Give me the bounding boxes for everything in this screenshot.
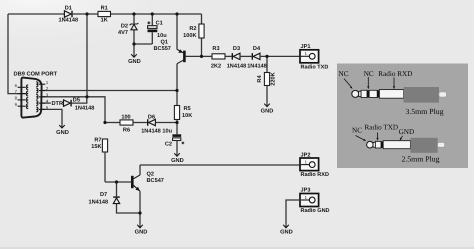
wire: DB9 pin4 stub — [41, 102, 51, 104]
wire: Q2 collector to JP2 — [140, 164, 300, 166]
svg-text:1K: 1K — [101, 18, 108, 24]
DB9 COM PORT connector — [14, 71, 58, 117]
svg-text:BC557: BC557 — [154, 46, 171, 52]
svg-text:220K: 220K — [271, 72, 277, 85]
svg-text:JP2: JP2 — [301, 153, 311, 159]
diode D4 — [247, 46, 267, 69]
ground: D2 — [128, 54, 141, 65]
svg-text:R3: R3 — [212, 46, 219, 52]
zener D2 — [118, 14, 138, 44]
svg-text:NC: NC — [339, 70, 349, 78]
svg-text:Radio TXD: Radio TXD — [301, 64, 329, 70]
svg-text:Radio RXD: Radio RXD — [301, 172, 329, 178]
svg-text:3.5mm Plug: 3.5mm Plug — [405, 107, 443, 116]
node: Q2 emitter / D7 — [138, 211, 141, 214]
wire: top-left rail to D1 — [8, 13, 64, 15]
pin 4 — [39, 102, 46, 104]
svg-text:D6: D6 — [148, 114, 155, 120]
resistor R5 — [174, 91, 192, 123]
svg-text:10u: 10u — [162, 129, 172, 135]
plug tip ring — [352, 90, 359, 97]
node: D2 top — [132, 12, 135, 15]
node: Q1 emitter riser — [175, 12, 178, 15]
resistor R1 — [98, 5, 111, 23]
svg-text:1N4148: 1N4148 — [227, 64, 247, 70]
wire: DB9 pin3 line to R6/R7 node — [41, 97, 105, 123]
svg-text:2K2: 2K2 — [211, 64, 221, 70]
svg-text:4V7: 4V7 — [118, 30, 128, 36]
node: riser / pin3 line — [85, 95, 88, 98]
connector JP2 — [300, 153, 329, 178]
wire: R2 bottom to base junction — [201, 38, 203, 56]
svg-text:Radio TXD: Radio TXD — [365, 124, 399, 132]
wire: corner down to R2 top — [201, 14, 203, 24]
ground: DB9 pin5 — [56, 125, 69, 136]
svg-text:DB9 COM PORT: DB9 COM PORT — [14, 71, 58, 77]
svg-text:C1: C1 — [156, 21, 163, 27]
diode D1 — [58, 5, 78, 23]
node: D4 / R4 / JP1 — [265, 55, 268, 58]
svg-text:Q1: Q1 — [161, 40, 168, 46]
pin 8 — [18, 99, 26, 101]
ground: R4 — [261, 103, 274, 114]
capacitor C1 — [147, 14, 167, 44]
diode D7 — [89, 182, 141, 213]
2.5mm plug drawing — [352, 124, 445, 164]
svg-text:JP3: JP3 — [301, 188, 311, 194]
wire: DB9 pin5 to GND — [41, 109, 62, 124]
svg-text:2.5mm Plug: 2.5mm Plug — [401, 155, 439, 164]
svg-text:1N4148: 1N4148 — [89, 199, 109, 205]
node: D1/R1 junction — [85, 12, 88, 15]
svg-text:R4: R4 — [257, 75, 263, 83]
transistor Q1 BC557 — [154, 14, 202, 91]
svg-text:GND: GND — [399, 128, 415, 136]
diode D6 — [141, 114, 177, 134]
pin 6 — [18, 86, 26, 88]
svg-text:1N4148: 1N4148 — [141, 128, 161, 134]
svg-text:D2: D2 — [121, 23, 128, 29]
wire: R3 to D3 — [225, 55, 232, 57]
svg-text:DTR: DTR — [52, 101, 64, 107]
svg-text:R1: R1 — [101, 5, 108, 11]
node: C1 top — [151, 12, 154, 15]
svg-text:R7: R7 — [94, 137, 101, 143]
svg-text:GND: GND — [261, 108, 274, 114]
svg-text:BC547: BC547 — [147, 178, 164, 184]
wire: D5 anode stub — [62, 102, 65, 104]
wire: base of Q2 — [105, 181, 131, 183]
wire: D1 to R1 — [73, 13, 98, 15]
ground: C2 — [171, 153, 184, 164]
svg-text:D3: D3 — [233, 46, 240, 52]
wire: D1 junction vertical down — [86, 14, 88, 97]
resistor R3 — [211, 46, 225, 69]
svg-text:GND: GND — [56, 130, 69, 136]
diode D5 — [64, 97, 95, 111]
wire: D2 junction to GND — [133, 44, 135, 54]
wire: R1 to R2 corner — [111, 13, 202, 15]
resistor R6 — [105, 114, 147, 133]
svg-text:GND: GND — [135, 229, 148, 235]
svg-text:D7: D7 — [100, 192, 107, 198]
svg-text:10u: 10u — [157, 33, 167, 39]
pin 3 — [39, 96, 46, 98]
transistor Q2 BC547 — [131, 165, 164, 224]
svg-text:GND: GND — [128, 59, 141, 65]
ground: Q2 emitter — [135, 224, 148, 235]
wire: D2 junction to C1 bottom — [134, 43, 152, 45]
svg-text:1N4148: 1N4148 — [58, 18, 78, 24]
pin 9 — [18, 105, 26, 107]
pin 5 — [39, 108, 46, 110]
svg-text:R2: R2 — [189, 26, 196, 32]
svg-text:10K: 10K — [182, 113, 192, 119]
node: D7 top — [115, 180, 118, 183]
svg-text:JP1: JP1 — [301, 44, 311, 50]
svg-text:C2: C2 — [165, 142, 172, 148]
3.5mm plug drawing — [339, 70, 447, 116]
svg-text:Q2: Q2 — [147, 171, 154, 177]
svg-text:NC: NC — [364, 70, 374, 78]
svg-text:D4: D4 — [253, 46, 261, 52]
svg-text:1N4148: 1N4148 — [247, 64, 267, 70]
node: Q1 collector / pin2 / R5 — [175, 89, 178, 92]
wire: left rail down to DB9 pin 7 — [8, 14, 26, 94]
svg-text:GND: GND — [280, 229, 293, 235]
svg-text:D5: D5 — [73, 97, 80, 103]
gray info panel — [337, 64, 468, 169]
svg-text:15K: 15K — [91, 144, 101, 150]
svg-text:100K: 100K — [183, 33, 196, 39]
wire: D4 to JP1 — [260, 55, 300, 57]
pin 7 — [18, 93, 26, 95]
node: R6 / R7 — [103, 121, 106, 124]
wire: DB9 pin2 line to Q1 collector node — [41, 90, 177, 92]
capacitor C2 — [162, 123, 184, 153]
connector JP1 — [300, 44, 328, 71]
pin 2 — [39, 90, 46, 92]
svg-text:GND: GND — [171, 158, 184, 164]
pin 1 — [39, 83, 46, 85]
resistor R4 — [257, 56, 277, 103]
node: R5 / D6 / C2 — [175, 121, 178, 124]
wire: D3 to D4 — [240, 55, 252, 57]
wire: JP3 to GND — [286, 200, 300, 224]
svg-text:NC: NC — [352, 126, 362, 134]
connector JP3 — [300, 188, 330, 215]
svg-text:R5: R5 — [184, 106, 191, 112]
resistor R2 — [183, 24, 204, 39]
wire: base junction to R3 — [202, 55, 213, 57]
svg-text:1N4148: 1N4148 — [75, 106, 95, 112]
node: D2/C1/GND — [132, 42, 135, 45]
svg-text:Radio GND: Radio GND — [301, 208, 330, 214]
svg-text:R6: R6 — [123, 128, 130, 134]
svg-text:D1: D1 — [65, 5, 72, 11]
ground: JP3 — [280, 224, 293, 235]
wire: D5 cathode to riser — [72, 97, 87, 103]
node: Q1 base / R2 — [200, 55, 203, 58]
svg-text:100: 100 — [121, 114, 130, 120]
diode D3 — [227, 46, 247, 69]
resistor R7 — [91, 137, 107, 182]
svg-text:Radio RXD: Radio RXD — [378, 70, 412, 78]
